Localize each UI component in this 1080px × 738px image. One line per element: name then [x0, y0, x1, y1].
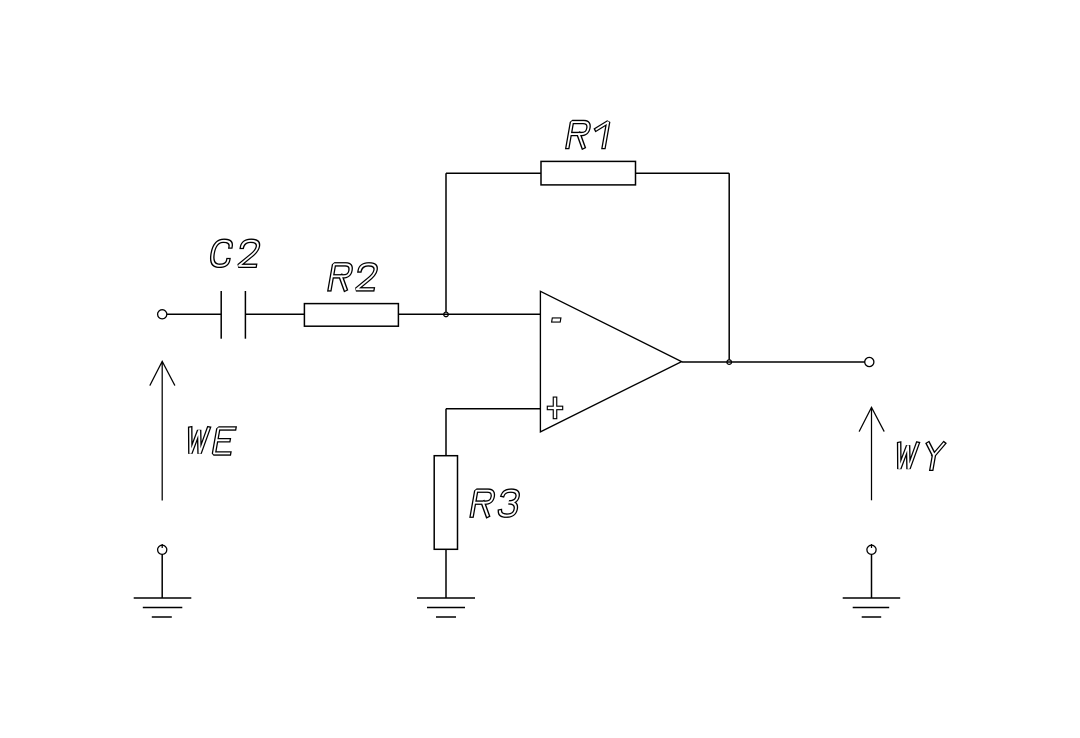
wire right terminal to ground: [871, 554, 873, 598]
resistor R2: [304, 304, 398, 327]
wire to non-inverting input: [446, 408, 540, 410]
label R1: [568, 122, 609, 147]
wire feedback top right: [636, 172, 730, 174]
left lower terminal: [158, 545, 167, 554]
wire C2 to R2: [245, 313, 304, 315]
ground middle: [417, 598, 475, 617]
right lower terminal: [867, 545, 876, 554]
wire input to C2: [162, 313, 221, 315]
wire feedback right vertical: [728, 173, 730, 359]
wire R3 to ground: [445, 549, 447, 598]
ground right: [843, 598, 901, 617]
label WY: [895, 444, 944, 469]
op-amp plus label: [547, 397, 562, 419]
label R2: [330, 264, 377, 289]
right terminal tick: [871, 544, 873, 548]
WE arrow: [150, 361, 175, 500]
output terminal: [865, 357, 874, 366]
input terminal: [158, 310, 167, 319]
WY arrow: [859, 407, 884, 500]
label C2: [211, 241, 260, 266]
capacitor C2: [221, 291, 245, 339]
op-amp minus label: [552, 318, 561, 322]
wire left terminal to ground: [161, 554, 163, 598]
ground left: [134, 598, 192, 617]
wire output: [682, 361, 865, 363]
wire down to R3: [445, 409, 447, 456]
left terminal tick: [161, 544, 163, 548]
op-amp U1: [540, 291, 681, 432]
resistor R1: [541, 161, 636, 185]
wire feedback top left: [446, 172, 541, 174]
label R3: [472, 491, 519, 516]
wire feedback left vertical: [445, 173, 447, 312]
resistor R3: [434, 456, 457, 550]
node output junction: [727, 360, 732, 365]
wire R2 to op-amp inverting input: [398, 313, 540, 315]
node A junction: [444, 312, 449, 317]
label WE: [186, 428, 235, 453]
